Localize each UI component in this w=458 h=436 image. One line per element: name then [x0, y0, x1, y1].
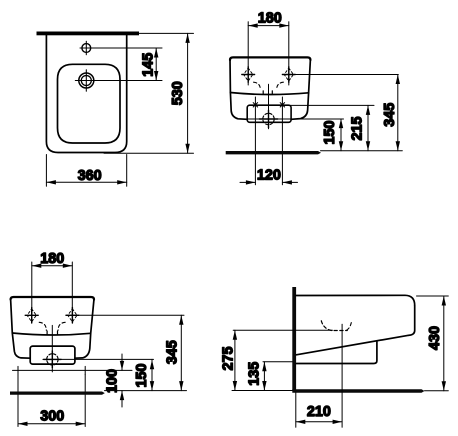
dim 360 ext left	[45, 155, 47, 187]
dim 210 ext left	[295, 393, 297, 428]
floor fixing cross right	[84, 366, 86, 374]
dim 345 line	[180, 315, 182, 390]
fixing hole right axis bold	[71, 308, 73, 323]
svg-text:145: 145	[139, 53, 156, 77]
fixing hole right crosshair / dim345 leader	[66, 314, 184, 316]
hidden dashed hook left	[39, 322, 46, 330]
dim 180 arrows	[248, 23, 289, 27]
dim 430 ext bottom	[425, 390, 449, 392]
dim 180 ext right / hole axis	[71, 262, 73, 322]
center line	[268, 84, 270, 129]
hidden dashed hook right	[58, 322, 65, 330]
lower band right	[291, 93, 309, 120]
fixing hole diamond right	[284, 68, 293, 81]
svg-text:150: 150	[133, 364, 150, 388]
hidden dashed hook right	[277, 82, 284, 90]
drain leader	[75, 80, 162, 82]
fixing hole right axis bold	[288, 67, 290, 82]
dim 530 arrows	[185, 33, 189, 153]
dim 180 ext left / hole axis	[31, 262, 33, 322]
fixing hole right crosshair bold	[66, 314, 79, 316]
fixing hole diamond left	[244, 68, 253, 81]
drain hole outer	[79, 73, 94, 88]
svg-text:300: 300	[40, 407, 64, 424]
svg-text:345: 345	[381, 103, 398, 127]
drain crosshair bold	[259, 118, 277, 120]
dim 180 ext right / hole axis right	[288, 22, 290, 85]
dim 430 line	[443, 296, 445, 391]
hidden dashed hook right	[346, 323, 351, 331]
fixing hole left crosshair	[25, 314, 38, 316]
drain hole inner	[81, 76, 91, 86]
hidden dashed basin arc	[321, 321, 347, 331]
dim 530 line	[187, 33, 189, 153]
svg-text:430: 430	[426, 326, 443, 350]
wall line (thick)	[292, 287, 296, 391]
floor line (thick)	[10, 392, 105, 395]
fixing hole diamond left	[27, 309, 36, 322]
floor fixing cross left	[17, 366, 19, 374]
underside slant	[296, 335, 408, 355]
body right edge	[309, 60, 311, 93]
floor holes line / dim100 ext	[13, 369, 133, 371]
dim 180 line	[32, 265, 73, 267]
dim 345 arrows	[179, 315, 183, 390]
svg-text:180: 180	[258, 10, 282, 27]
drain crosshair bold	[44, 358, 61, 360]
fixing hole left axis bold	[31, 308, 33, 323]
tap hole vertical tick	[85, 41, 87, 54]
dim 530 ext top	[139, 32, 194, 34]
dim 150 line	[151, 359, 153, 390]
dim 180 ext left / hole axis left	[247, 22, 249, 85]
dim 100 line segments (outside arrows)	[121, 354, 123, 370]
tap hole	[82, 44, 91, 53]
drain circle	[47, 354, 58, 365]
dim 120 arrows	[246, 180, 292, 184]
drain center line	[341, 324, 343, 427]
outlet box	[247, 105, 291, 122]
hole tick right on box	[280, 103, 284, 107]
dim 145 line	[155, 48, 157, 81]
wall bar	[37, 32, 140, 36]
fixing hole diamond right	[68, 309, 77, 322]
dim 135 arrows	[262, 362, 266, 391]
body right edge	[91, 299, 94, 333]
dim 430 ext top	[417, 295, 449, 297]
hidden dashed hook left	[254, 82, 261, 90]
svg-text:210: 210	[307, 403, 331, 420]
body top edge	[11, 297, 94, 300]
drain vertical tick	[85, 70, 87, 91]
floor ext line right	[321, 150, 403, 152]
dim 300 arrows	[18, 422, 85, 426]
center notch ticks	[47, 331, 57, 335]
drain vertical bold	[51, 351, 53, 368]
dim 300 line	[18, 423, 85, 425]
dim 120 ext right	[281, 97, 283, 185]
dim 150 line	[340, 119, 342, 151]
dim 215 line	[367, 105, 369, 150]
dim 150 arrows	[339, 119, 343, 151]
floor line (thick)	[292, 389, 424, 393]
dim 360 ext right	[126, 155, 128, 187]
svg-text:100: 100	[103, 369, 120, 393]
fixing hole right crosshair / dim345 leader	[282, 74, 398, 76]
drain vertical bold	[268, 110, 270, 128]
tap hole leader	[80, 47, 162, 49]
dim 120 ext left	[254, 97, 256, 185]
dim 215 ext line	[285, 104, 374, 106]
dim 345 line	[397, 75, 399, 151]
dim 145 arrows	[154, 48, 158, 81]
dim 215 arrows	[366, 105, 370, 150]
dim 275 arrows	[233, 330, 237, 390]
pedestal box	[30, 346, 75, 364]
dim 360 line	[46, 181, 126, 183]
floor line (wall-hung)	[226, 151, 321, 154]
step line	[230, 93, 308, 95]
svg-text:530: 530	[169, 81, 186, 105]
basin inner rim	[58, 64, 121, 143]
dim 300 ext left	[17, 374, 19, 426]
dim 150 arrows	[150, 360, 154, 391]
svg-text:120: 120	[257, 167, 281, 184]
body left edge	[229, 60, 231, 93]
dim 210 line	[296, 421, 342, 423]
dim 530 ext bottom	[104, 152, 194, 154]
body right edge	[409, 306, 415, 336]
svg-text:150: 150	[321, 121, 338, 145]
lower band left	[230, 93, 247, 120]
svg-text:275: 275	[220, 347, 237, 371]
center notch ticks	[263, 91, 272, 94]
dim 300 ext right	[84, 374, 86, 426]
dim 275 ext line	[233, 329, 332, 331]
drain crosshair / dim150 ext leader	[43, 358, 154, 360]
dim 430 arrows	[442, 296, 446, 391]
step line	[12, 333, 90, 335]
fixing hole left axis bold	[247, 67, 249, 82]
dim 360 arrows	[46, 180, 126, 184]
drain crosshair / dim150 ext line	[240, 118, 344, 120]
dim 100 arrows	[120, 361, 124, 400]
dim 210 arrows	[296, 420, 342, 424]
svg-text:345: 345	[164, 340, 181, 364]
fixing hole right crosshair bold	[282, 74, 295, 76]
svg-text:135: 135	[245, 362, 262, 386]
drain circle	[263, 113, 274, 124]
dim 135 line	[263, 362, 265, 391]
dim 345 arrows	[396, 75, 400, 151]
svg-text:360: 360	[78, 167, 102, 184]
dim 180 arrows	[32, 264, 73, 268]
trap step	[296, 341, 377, 364]
dim 135 ext line	[263, 361, 292, 363]
skirt right	[75, 333, 91, 358]
floor ext line right	[105, 390, 187, 392]
body top edge	[296, 295, 415, 305]
svg-text:180: 180	[40, 250, 64, 267]
body left edge	[11, 299, 13, 333]
body outline plan	[46, 35, 126, 153]
dim 275 line	[234, 330, 236, 390]
dim 120 line outside segments	[240, 181, 255, 183]
hole tick left on box	[253, 103, 257, 107]
dim 180 line	[248, 25, 289, 27]
center line	[51, 325, 53, 372]
fixing hole left crosshair	[242, 74, 255, 76]
svg-text:215: 215	[349, 117, 366, 141]
floor ext line left	[232, 390, 292, 392]
skirt left	[12, 333, 30, 358]
body top edge	[230, 57, 310, 60]
